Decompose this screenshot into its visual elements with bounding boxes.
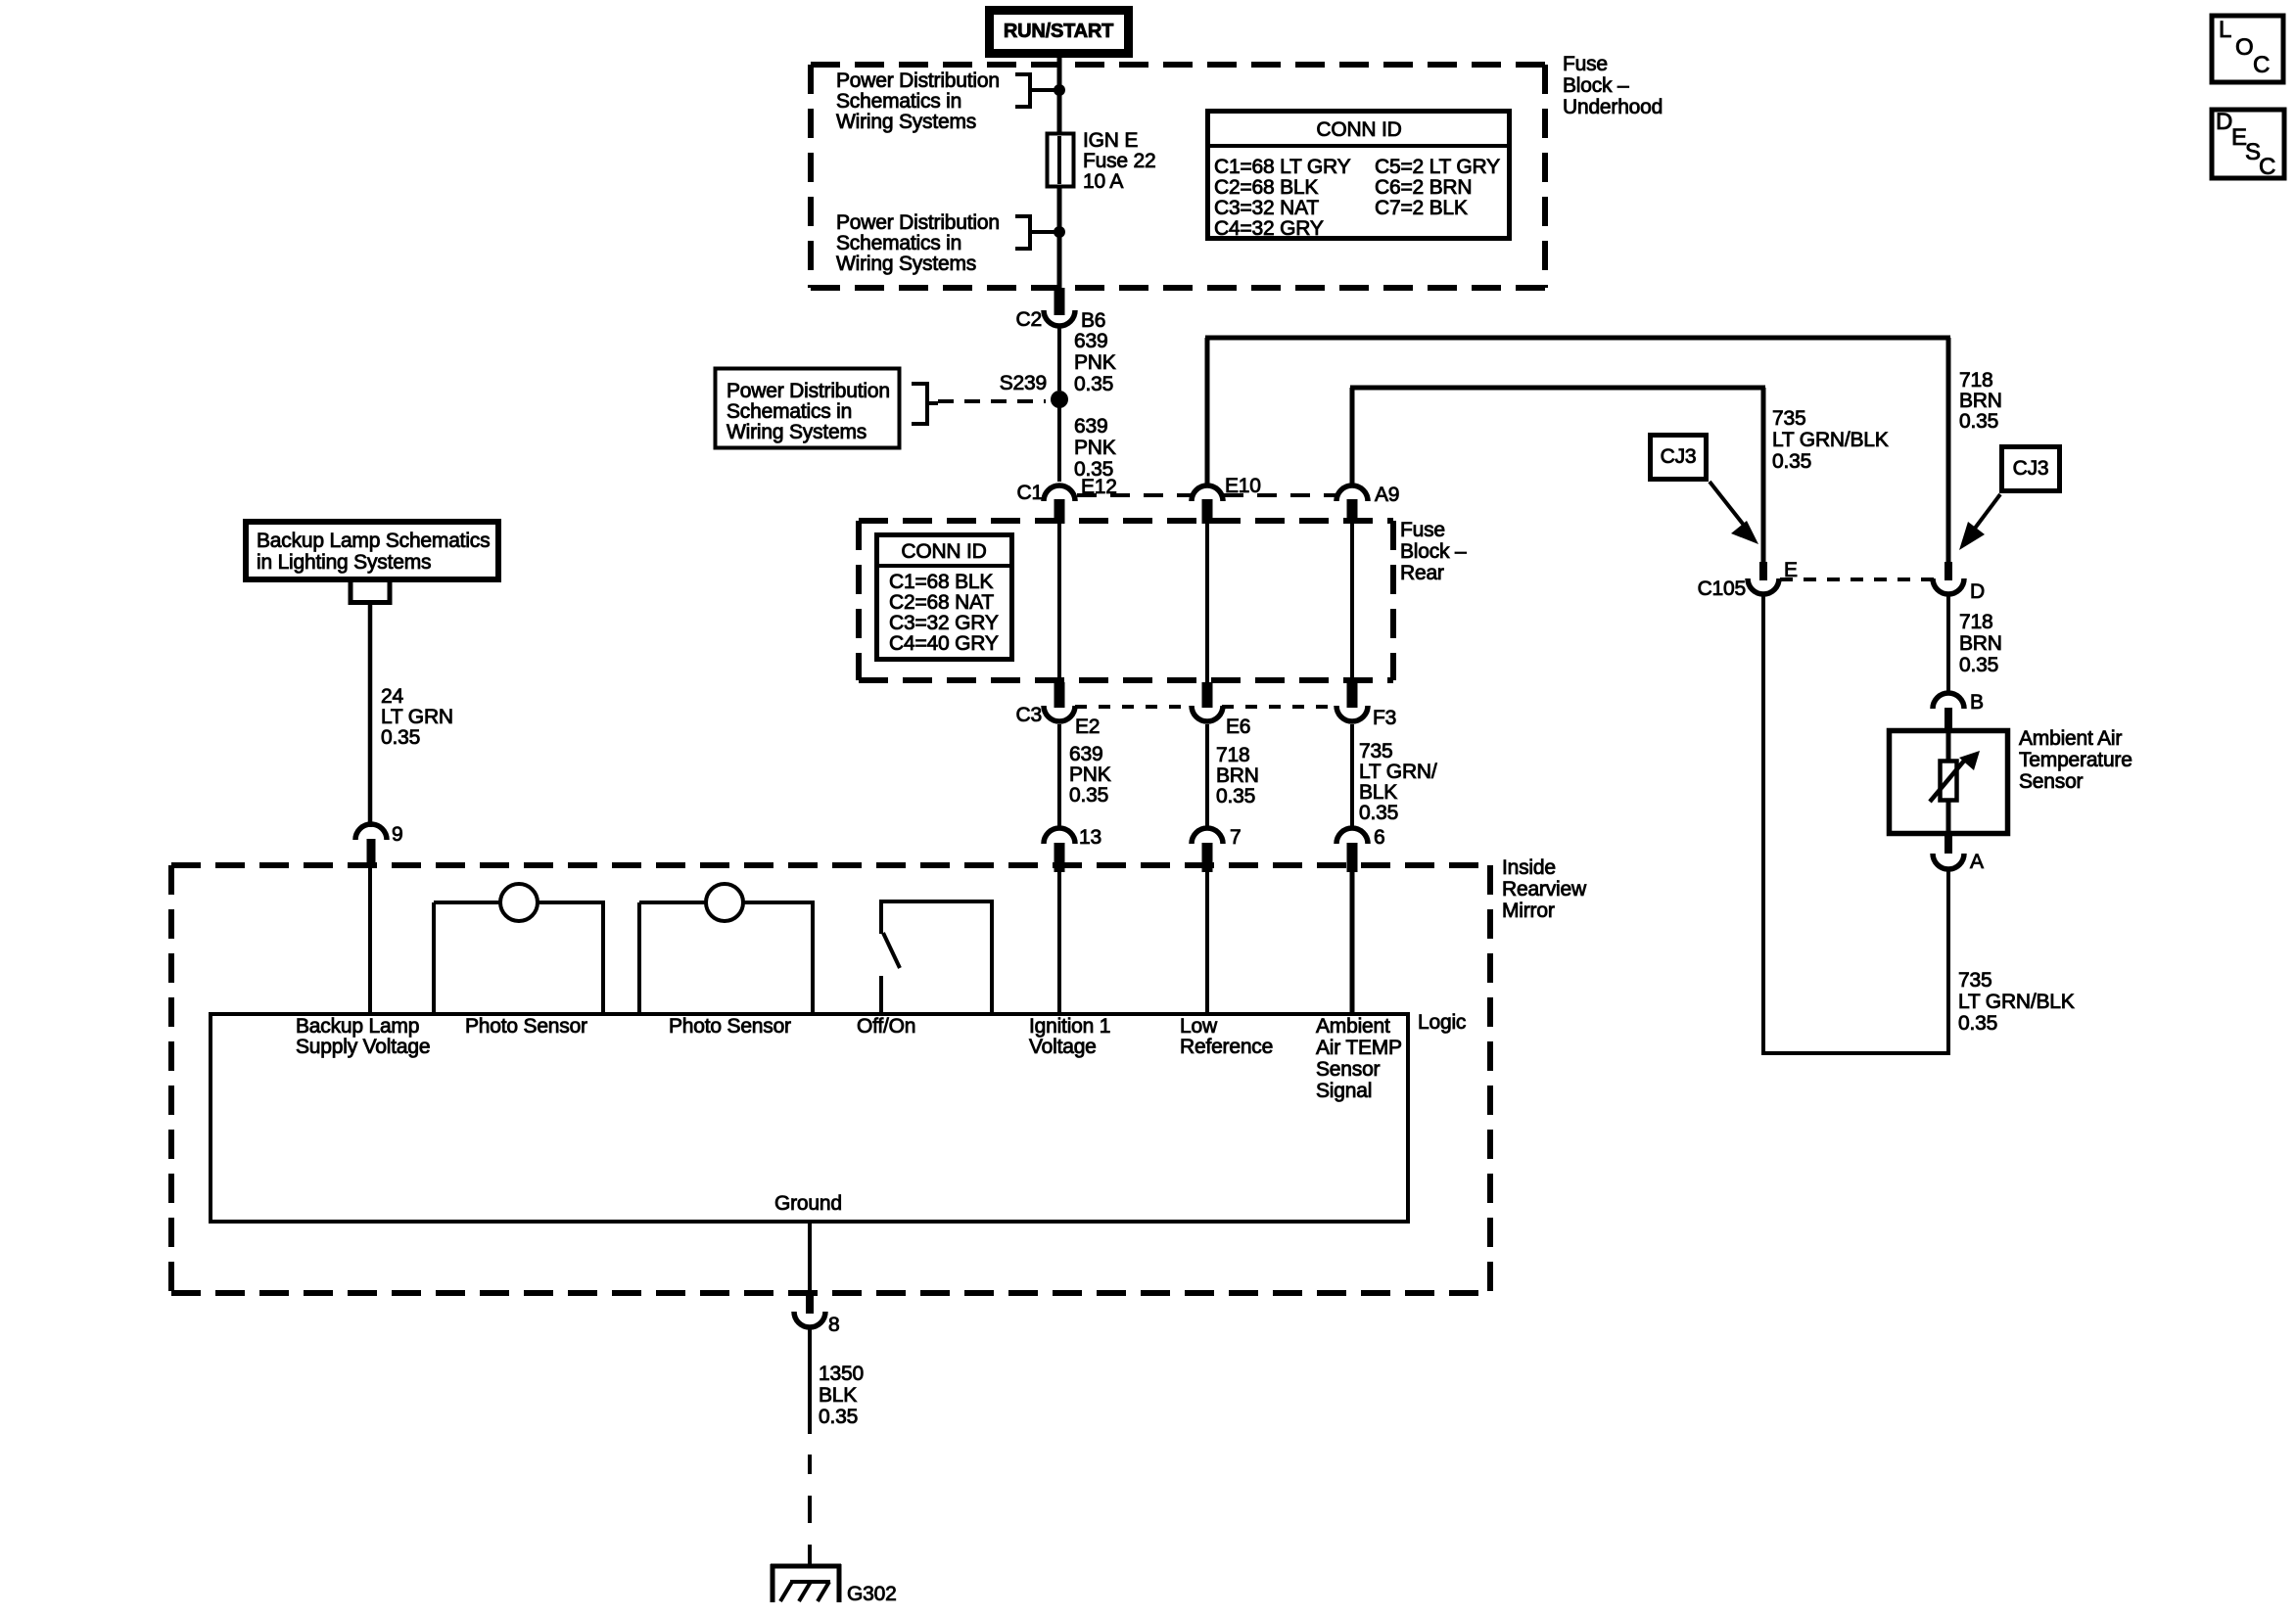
- svg-text:735: 735: [1359, 740, 1392, 762]
- svg-text:A9: A9: [1375, 484, 1399, 506]
- svg-text:LT GRN: LT GRN: [381, 706, 453, 728]
- mirror logic block: [211, 1011, 1466, 1222]
- label Ambient Air Temperature Sensor: [2019, 727, 2132, 793]
- svg-text:639: 639: [1074, 415, 1107, 438]
- svg-text:7: 7: [1230, 826, 1241, 849]
- svg-text:0.35: 0.35: [1216, 785, 1255, 808]
- svg-text:C4=32 GRY: C4=32 GRY: [1214, 217, 1324, 240]
- svg-text:E10: E10: [1225, 475, 1261, 497]
- legend box DESC: [2212, 109, 2284, 180]
- svg-text:10 A: 10 A: [1083, 170, 1123, 193]
- svg-text:Off/On: Off/On: [857, 1015, 915, 1038]
- wire RUN/START to fuse IGN E: [1057, 53, 1062, 133]
- connector pin E6: [1192, 682, 1250, 738]
- svg-text:Schematics in: Schematics in: [836, 90, 961, 113]
- svg-text:Ambient Air: Ambient Air: [2019, 727, 2122, 750]
- inside rearview mirror dashed outline: [171, 865, 1490, 1293]
- svg-text:13: 13: [1079, 826, 1101, 849]
- svg-text:639: 639: [1074, 330, 1107, 352]
- svg-text:C7=2 BLK: C7=2 BLK: [1375, 197, 1468, 219]
- connector pin A: [1933, 835, 1984, 873]
- wire 718 BRN from E10 to C105 D: [1205, 338, 1950, 562]
- svg-text:Supply Voltage: Supply Voltage: [296, 1036, 430, 1058]
- svg-text:LT GRN/BLK: LT GRN/BLK: [1772, 429, 1889, 451]
- svg-text:Rear: Rear: [1400, 562, 1444, 584]
- svg-text:6: 6: [1374, 826, 1384, 849]
- connector pin 13: [1044, 826, 1101, 872]
- pin label ignition 1 voltage: [1029, 1015, 1110, 1058]
- svg-text:B: B: [1970, 691, 1984, 714]
- svg-text:C105: C105: [1698, 577, 1746, 600]
- svg-text:Photo Sensor: Photo Sensor: [669, 1015, 791, 1038]
- svg-text:C2: C2: [1016, 308, 1042, 331]
- pin label low reference: [1180, 1015, 1273, 1058]
- svg-text:9: 9: [392, 823, 402, 846]
- label 735 LT GRN/BLK 0.35 (mid right): [1772, 407, 1889, 473]
- svg-text:718: 718: [1959, 369, 1992, 392]
- connector line C3 (dashed): [1075, 705, 1336, 709]
- svg-text:Fuse: Fuse: [1400, 519, 1445, 541]
- connector pin 7: [1192, 826, 1241, 872]
- reference: Power Distribution Schematics (upper tap): [836, 69, 1059, 133]
- connector line C105 (dashed): [1780, 577, 1934, 581]
- svg-text:IGN E: IGN E: [1083, 129, 1138, 152]
- svg-text:1350: 1350: [819, 1363, 864, 1385]
- svg-text:D: D: [2216, 109, 2232, 135]
- svg-text:CJ3: CJ3: [1661, 445, 1697, 468]
- connector pin 6: [1336, 826, 1384, 872]
- svg-text:639: 639: [1069, 743, 1102, 765]
- svg-text:Temperature: Temperature: [2019, 749, 2132, 771]
- svg-text:C2=68 BLK: C2=68 BLK: [1214, 176, 1318, 199]
- svg-text:Low: Low: [1180, 1015, 1218, 1038]
- label Fuse Block Rear: [1400, 519, 1467, 584]
- svg-text:0.35: 0.35: [1069, 784, 1108, 807]
- svg-text:LT GRN/BLK: LT GRN/BLK: [1958, 991, 2075, 1013]
- svg-text:Power Distribution: Power Distribution: [836, 69, 1000, 92]
- reference: Backup Lamp Schematics: [246, 522, 498, 603]
- wire sensor A return (735): [1761, 596, 1950, 1055]
- svg-text:Mirror: Mirror: [1502, 900, 1555, 922]
- connector line C1 (dashed): [1077, 493, 1336, 497]
- svg-text:735: 735: [1772, 407, 1805, 430]
- reference: Power Distribution Schematics (lower tap): [836, 211, 1059, 275]
- fuse block underhood dashed outline: [811, 65, 1545, 288]
- svg-text:Photo Sensor: Photo Sensor: [465, 1015, 587, 1038]
- pin label backup lamp supply voltage: [296, 1015, 430, 1058]
- wire to G302 (dashed): [808, 1455, 812, 1566]
- wire 24 LT GRN 0.35: [370, 602, 453, 827]
- svg-text:0.35: 0.35: [1359, 802, 1398, 824]
- wire through rear block (brown circuit): [1205, 524, 1209, 682]
- power feed box RUN/START: [990, 11, 1129, 54]
- svg-text:Power Distribution: Power Distribution: [726, 380, 890, 402]
- svg-text:PNK: PNK: [1074, 351, 1116, 374]
- svg-text:Power Distribution: Power Distribution: [836, 211, 1000, 234]
- svg-text:D: D: [1970, 580, 1985, 603]
- label 718 BRN 0.35 (top right): [1959, 369, 2002, 433]
- svg-text:C2=68 NAT: C2=68 NAT: [889, 591, 994, 614]
- svg-text:C3=32 NAT: C3=32 NAT: [1214, 197, 1319, 219]
- svg-text:0.35: 0.35: [381, 726, 420, 749]
- svg-text:0.35: 0.35: [1074, 373, 1113, 395]
- svg-text:0.35: 0.35: [1959, 654, 1998, 676]
- svg-text:BRN: BRN: [1216, 764, 1259, 787]
- label Fuse Block Underhood: [1563, 53, 1663, 118]
- svg-text:B6: B6: [1081, 309, 1105, 332]
- connector pin F3: [1336, 682, 1396, 729]
- fuse IGN E Fuse 22 10 A: [1048, 129, 1156, 193]
- svg-text:C1=68 BLK: C1=68 BLK: [889, 571, 993, 593]
- svg-text:BRN: BRN: [1959, 632, 2002, 655]
- svg-text:E2: E2: [1075, 716, 1100, 738]
- connector pin A9: [1336, 484, 1399, 524]
- svg-text:Block –: Block –: [1400, 540, 1467, 563]
- wire backup lamp supply into logic: [368, 865, 372, 1014]
- wire ambient signal into logic: [1350, 872, 1355, 1014]
- callout CJ3 (right): [1959, 447, 2060, 551]
- connector pin 9: [355, 823, 402, 865]
- svg-text:Ground: Ground: [774, 1192, 842, 1215]
- wire 718 BRN 0.35 (to mirror): [1207, 724, 1259, 830]
- svg-text:Inside: Inside: [1502, 856, 1556, 879]
- wire ignition 1 voltage into logic: [1057, 872, 1061, 1014]
- svg-text:C4=40 GRY: C4=40 GRY: [889, 632, 999, 655]
- svg-text:C3: C3: [1016, 704, 1042, 726]
- svg-text:Schematics in: Schematics in: [726, 400, 852, 423]
- wire 639 PNK 0.35 (to mirror): [1059, 724, 1111, 830]
- svg-text:Ambient: Ambient: [1316, 1015, 1390, 1038]
- svg-text:0.35: 0.35: [1958, 1012, 1997, 1035]
- svg-text:718: 718: [1216, 744, 1249, 766]
- wire 735 LT GRN/BLK from A9 to C105 E: [1350, 388, 1765, 562]
- wire through rear block (green circuit): [1350, 524, 1354, 682]
- wire C105 D to sensor pin B: [1946, 596, 1950, 693]
- ground G302: [771, 1564, 897, 1605]
- wire 735 LT GRN/BLK 0.35 (to mirror): [1352, 724, 1437, 830]
- svg-text:CONN ID: CONN ID: [1316, 118, 1401, 141]
- connector C3 pin E2: [1016, 682, 1101, 738]
- svg-text:Logic: Logic: [1418, 1011, 1466, 1034]
- svg-text:PNK: PNK: [1074, 437, 1116, 459]
- svg-text:Signal: Signal: [1316, 1080, 1372, 1102]
- svg-text:C1: C1: [1017, 482, 1043, 504]
- svg-text:CONN ID: CONN ID: [901, 540, 986, 563]
- connector ID table (underhood): [1207, 112, 1510, 241]
- svg-text:0.35: 0.35: [1772, 450, 1811, 473]
- wire fuse to C2: [1057, 186, 1062, 288]
- wire 639 PNK 0.35 (upper): [1059, 328, 1116, 395]
- svg-text:E6: E6: [1226, 716, 1250, 738]
- svg-text:F3: F3: [1373, 707, 1396, 729]
- svg-text:Reference: Reference: [1180, 1036, 1273, 1058]
- svg-text:C: C: [2253, 52, 2270, 78]
- label 735 LT GRN/BLK 0.35 (bottom right): [1958, 969, 2075, 1035]
- fuse block rear dashed outline: [859, 521, 1393, 680]
- svg-text:BLK: BLK: [819, 1384, 857, 1407]
- svg-text:Wiring Systems: Wiring Systems: [726, 421, 867, 443]
- svg-text:Fuse: Fuse: [1563, 53, 1608, 75]
- wire low reference into logic: [1205, 872, 1209, 1014]
- svg-text:L: L: [2219, 17, 2231, 43]
- wire 639 PNK 0.35 (lower): [1059, 399, 1116, 482]
- svg-text:O: O: [2235, 34, 2253, 61]
- svg-text:Rearview: Rearview: [1502, 878, 1587, 901]
- wire 1350 BLK 0.35: [810, 1329, 864, 1434]
- svg-text:Wiring Systems: Wiring Systems: [836, 111, 976, 133]
- svg-text:0.35: 0.35: [1959, 410, 1998, 433]
- wire through rear block (pink circuit): [1057, 524, 1061, 682]
- svg-text:BRN: BRN: [1959, 390, 2002, 412]
- svg-text:735: 735: [1958, 969, 1991, 992]
- label Inside Rearview Mirror: [1502, 856, 1587, 922]
- svg-text:C3=32 GRY: C3=32 GRY: [889, 612, 999, 634]
- svg-text:Block –: Block –: [1563, 74, 1629, 97]
- label 718 BRN 0.35 (below D): [1959, 611, 2002, 676]
- svg-text:CJ3: CJ3: [2013, 457, 2049, 480]
- connector ID table (rear): [876, 535, 1012, 660]
- svg-text:Underhood: Underhood: [1563, 96, 1663, 118]
- connector pin B: [1933, 691, 1984, 730]
- svg-text:Backup Lamp: Backup Lamp: [296, 1015, 419, 1038]
- svg-text:8: 8: [828, 1314, 839, 1336]
- legend box LOC: [2212, 16, 2283, 82]
- wire ground from logic: [808, 1222, 812, 1293]
- callout CJ3 (left): [1651, 436, 1759, 545]
- photo sensor 1: [434, 884, 605, 1014]
- connector pin E10: [1192, 475, 1261, 524]
- photo sensor 2: [639, 884, 815, 1014]
- svg-text:LT GRN/: LT GRN/: [1359, 761, 1437, 783]
- svg-text:Ignition 1: Ignition 1: [1029, 1015, 1110, 1038]
- svg-text:C5=2 LT GRY: C5=2 LT GRY: [1375, 156, 1500, 178]
- svg-text:Backup Lamp Schematics: Backup Lamp Schematics: [257, 530, 490, 552]
- svg-text:C1=68 LT GRY: C1=68 LT GRY: [1214, 156, 1351, 178]
- connector C1 pin E12: [1017, 476, 1117, 524]
- svg-text:PNK: PNK: [1069, 763, 1111, 786]
- svg-text:A: A: [1970, 851, 1984, 873]
- svg-text:C6=2 BRN: C6=2 BRN: [1375, 176, 1472, 199]
- connector C105 pin D: [1933, 562, 1985, 603]
- svg-text:Fuse 22: Fuse 22: [1083, 150, 1155, 172]
- connector C2 pin B6: [1016, 288, 1106, 332]
- svg-text:24: 24: [381, 685, 403, 708]
- svg-text:Sensor: Sensor: [2019, 770, 2084, 793]
- svg-text:Sensor: Sensor: [1316, 1058, 1381, 1081]
- svg-text:C: C: [2259, 154, 2275, 180]
- junction dot at lower tap: [1054, 226, 1065, 238]
- connector C105 pin E: [1698, 559, 1798, 600]
- svg-text:in Lighting Systems: in Lighting Systems: [257, 551, 431, 574]
- switch Off/On: [879, 901, 994, 1014]
- connector pin 8: [794, 1293, 839, 1336]
- svg-text:BLK: BLK: [1359, 781, 1397, 804]
- splice S239: [1000, 372, 1068, 408]
- svg-text:718: 718: [1959, 611, 1992, 633]
- svg-text:G302: G302: [847, 1583, 897, 1605]
- svg-text:S239: S239: [1000, 372, 1047, 394]
- svg-text:RUN/START: RUN/START: [1004, 21, 1113, 42]
- pin label ambient air temp sensor signal: [1316, 1015, 1402, 1102]
- svg-text:Wiring Systems: Wiring Systems: [836, 253, 976, 275]
- svg-text:Schematics in: Schematics in: [836, 232, 961, 254]
- junction dot at upper tap: [1054, 84, 1065, 96]
- svg-text:Voltage: Voltage: [1029, 1036, 1097, 1058]
- reference: Power Distribution Schematics (S239): [716, 369, 1047, 448]
- svg-text:Air TEMP: Air TEMP: [1316, 1037, 1402, 1059]
- ambient air temperature sensor U1: [1890, 731, 2008, 834]
- svg-text:0.35: 0.35: [819, 1406, 858, 1428]
